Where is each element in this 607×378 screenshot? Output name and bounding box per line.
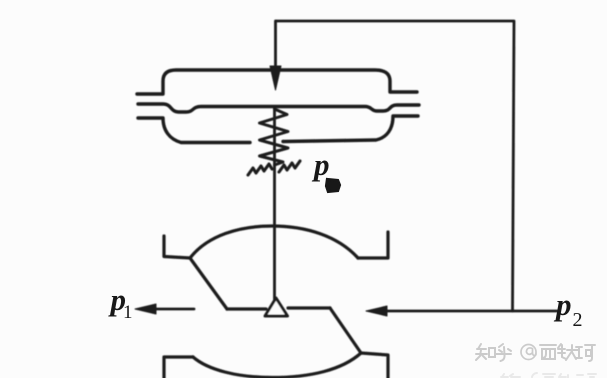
valve body lower-right flange bracket bbox=[361, 353, 388, 378]
valve body lower-left flange bracket bbox=[164, 357, 193, 378]
p2 inflow arrow bbox=[382, 310, 557, 313]
actuator upper chamber shell bbox=[137, 70, 417, 94]
ke char bbox=[576, 345, 595, 361]
valve seat right bbox=[288, 306, 330, 309]
actuator lower chamber shell right bbox=[283, 116, 418, 142]
valve plug triangle bbox=[265, 298, 288, 316]
valve stem bbox=[273, 107, 276, 299]
p1 outflow arrow bbox=[152, 308, 194, 311]
label p_set subscript blob (tiny dense character) bbox=[326, 179, 340, 192]
svg-text:p: p bbox=[553, 287, 572, 322]
hu char bbox=[496, 344, 511, 361]
zhi char bbox=[476, 344, 495, 360]
valve slant lower-right bbox=[330, 308, 361, 353]
control signal line from p2 tap to actuator bbox=[276, 21, 514, 311]
diaphragm bbox=[138, 104, 419, 112]
valve body upper-left flange bracket bbox=[164, 236, 190, 258]
xi char bbox=[540, 345, 556, 359]
actuator lower chamber shell left bbox=[138, 118, 250, 143]
valve body lower bowl bbox=[193, 353, 361, 378]
valve seat left bbox=[227, 307, 266, 310]
faint cropped watermark at bottom edge bbox=[501, 373, 596, 378]
valve body upper arch bbox=[190, 226, 358, 258]
svg-text:p: p bbox=[311, 147, 330, 182]
spring adjuster hatch right bbox=[279, 161, 300, 172]
signal arrow into actuator top bbox=[274, 21, 277, 70]
at sign bbox=[521, 345, 536, 360]
valve inlet slant upper-left bbox=[190, 258, 227, 309]
valve body upper-right flange bracket bbox=[358, 232, 388, 258]
tai char bbox=[558, 344, 578, 360]
spring adjuster hatch left bbox=[248, 164, 272, 175]
watermark: zhihu handle (drawn strokes) bbox=[476, 344, 595, 361]
svg-text:1: 1 bbox=[123, 302, 133, 323]
setpoint spring bbox=[260, 109, 289, 165]
svg-text:2: 2 bbox=[573, 309, 583, 331]
